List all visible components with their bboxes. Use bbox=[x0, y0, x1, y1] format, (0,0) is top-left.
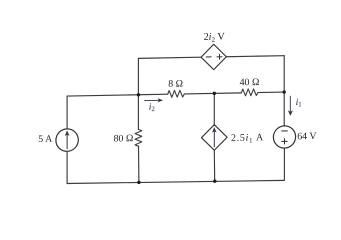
junction node: middle wire / right branch bbox=[283, 90, 286, 93]
svg-text:i2: i2 bbox=[149, 102, 156, 114]
wire: 80 ohm branch leads bbox=[137, 95, 140, 183]
wire: left branch verticals (5A source leads) bbox=[66, 96, 68, 183]
svg-text:40 Ω: 40 Ω bbox=[240, 77, 260, 88]
resistor 8 ohm (horizontal zigzag) bbox=[168, 90, 185, 97]
wire: middle horizontal wire bbox=[67, 92, 284, 96]
svg-text:2.5i1 A: 2.5i1 A bbox=[231, 132, 264, 145]
plus sign inside 64V bbox=[282, 139, 287, 144]
current source 5A (circle) bbox=[56, 129, 78, 152]
resistor 80 ohm (vertical zigzag) bbox=[135, 129, 142, 146]
minus sign inside 64V bbox=[282, 130, 288, 132]
junction node: middle wire / 80ohm branch bbox=[137, 93, 140, 96]
arrow inside 5A source bbox=[66, 135, 68, 149]
dependent voltage source 2i2V (diamond) bbox=[201, 44, 226, 70]
minus sign inside diamond bbox=[206, 56, 211, 58]
current arrow i1 (points down, right wire) bbox=[289, 96, 291, 112]
wire: top wire left segment bbox=[138, 57, 201, 58]
junction node: middle wire / dependent source branch bbox=[213, 92, 216, 95]
wire: dependent current source leads bbox=[213, 93, 215, 181]
svg-text:8 Ω: 8 Ω bbox=[168, 78, 183, 89]
plus sign inside diamond bbox=[217, 54, 222, 59]
arrow inside current diamond bbox=[213, 131, 215, 146]
wire: right vertical (top wire down to 64V source) bbox=[283, 56, 285, 126]
wire: top wire right segment bbox=[226, 56, 284, 57]
svg-text:64 V: 64 V bbox=[297, 131, 317, 142]
current arrow i2 (points right, under 8 ohm lead) bbox=[145, 99, 159, 101]
svg-text:2i2 V: 2i2 V bbox=[204, 31, 226, 44]
dependent current source 2.5i1A (diamond) bbox=[202, 124, 228, 150]
junction node: bottom wire / dependent source branch bbox=[213, 179, 216, 182]
wire: 64V source bottom lead bbox=[283, 148, 285, 180]
wire: top-left vertical riser bbox=[137, 58, 139, 94]
resistor 40 ohm (horizontal zigzag) bbox=[241, 89, 258, 96]
svg-text:80 Ω: 80 Ω bbox=[114, 133, 134, 144]
voltage source 64V (circle) bbox=[273, 126, 295, 149]
svg-text:i1: i1 bbox=[296, 97, 302, 109]
svg-text:5 A: 5 A bbox=[38, 134, 53, 145]
junction node: bottom wire / 80ohm branch bbox=[137, 181, 140, 184]
wire: bottom horizontal wire bbox=[67, 179, 284, 184]
